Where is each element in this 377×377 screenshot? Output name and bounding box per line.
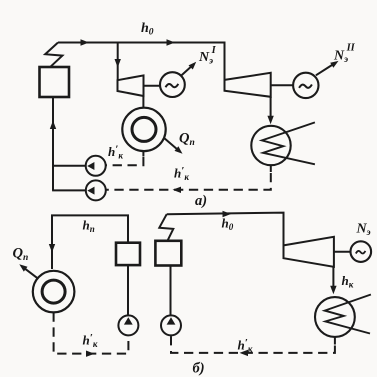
turbine T2 (condensing) [225,73,271,97]
pump P1 [86,156,106,176]
heater rect (scheme b left) [116,243,140,265]
condenser K2 cooling coil with water lines [325,295,371,334]
svg-text:h′к: h′к [83,332,98,349]
wire: pump P2 to feedwater line [52,189,86,191]
arrow on steam line right [167,39,176,45]
wire: condenser K1 drain stub [270,165,272,172]
arrow on steam line left [81,39,90,45]
pump P2 [86,180,106,200]
wire: steam line h_p (scheme b left) [52,215,128,269]
turbine T3 (scheme b) [284,237,334,267]
arrow down to turbine T1 [115,59,121,68]
svg-text:h0: h0 [222,216,234,233]
condenser K1 cooling coil with water lines [262,122,315,164]
generator G1 [160,72,185,97]
svg-text:h′к: h′к [174,165,189,182]
arrow Q_p (scheme a) [164,138,178,150]
svg-text:h′к: h′к [108,144,123,161]
arrow on dashed line (scheme b right) [240,350,249,356]
arrow to label N_e^II [316,65,333,76]
shaft T1 to G1 [144,85,161,87]
wire: feedwater line pumps to boiler [52,97,54,190]
wire: T2 exhaust to condenser K1 [270,97,272,117]
arrow up on feedwater line [50,121,56,130]
pump P2 impeller arrow [87,187,94,195]
turbine T1 (back-pressure) [118,75,144,96]
pump P3 impeller arrow [124,317,133,324]
svg-text:NэI: NэI [198,45,217,67]
wire: boiler to pump P4 [170,266,172,316]
generator G3 tilde [356,251,366,254]
heat consumer inner circle (scheme a) [132,117,156,141]
arrow down on h_p line [49,244,55,253]
boiler rect (scheme b) [155,241,181,266]
arrow on h0 line (scheme b) [223,211,232,217]
boiler furnace zigzag (scheme b) [159,214,173,240]
wire: pump P1 to feedwater line [53,165,86,167]
pump P4 [161,315,181,335]
wire: dashed condensate line to pump P1 [106,157,144,165]
svg-text:б): б) [193,361,205,377]
wire: dashed condensate return (scheme b left) [54,313,129,354]
arrow on dashed condensate line [173,187,182,193]
boiler furnace zigzag (scheme a) [45,43,62,68]
svg-text:Qп: Qп [13,246,29,264]
pump P4 impeller arrow [167,317,176,324]
svg-text:а): а) [195,193,207,209]
generator G2 [293,73,318,98]
svg-text:hп: hп [83,218,95,235]
heat consumer outer circle (scheme a) [122,108,165,151]
boiler B1 (scheme a) [40,67,70,97]
wire: dashed condensate (scheme b right) to pump P4 [171,336,335,353]
wire: heater to pump P3 [127,265,129,315]
wire: steam line h0 (scheme b) [167,213,284,246]
wire: branch from steam line to turbine T1 [117,43,119,81]
svg-text:Qп: Qп [179,131,195,149]
svg-text:hк: hк [342,273,354,290]
generator G2 tilde [299,85,312,88]
arrow Q_p (scheme b) [25,268,38,278]
heat consumer inner circle (scheme b) [42,280,65,303]
generator G3 [351,241,372,262]
condenser K1 [251,126,290,165]
svg-text:NэII: NэII [333,43,356,66]
heat consumer outer circle (scheme b) [33,271,75,313]
pump P3 [118,315,138,335]
wire: T3 exhaust to condenser K2 [332,267,334,288]
wire: condenser K2 drain stub [334,337,336,345]
svg-text:h0: h0 [141,21,154,38]
wire: condensate stub below heat consumer [142,151,144,156]
condenser K2 [315,297,355,337]
generator G1 tilde [166,84,179,87]
svg-text:Nэ: Nэ [356,222,371,239]
wire: T1 exhaust to heat consumer [142,96,144,108]
wire: main steam line h0 with drop to turbine T2 (scheme a) [58,43,225,81]
arrow on dashed return (scheme b left) [86,351,95,357]
arrow to label N_e^I [181,66,192,75]
pump P1 impeller arrow [87,162,94,170]
shaft T3 to G3 [334,251,351,253]
wire: dashed condensate from condenser K1 to pump P2 [106,173,271,190]
shaft T2 to G2 [271,84,294,86]
